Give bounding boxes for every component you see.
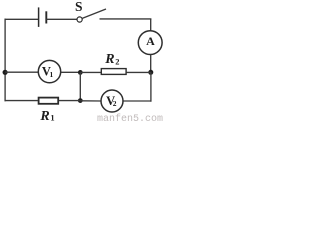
wire: R2 to D1 [126,71,150,73]
svg-text:S: S [75,0,83,14]
wire: right rail down to ammeter [150,19,152,31]
wire: bottom-left (left rail to R1) [5,100,38,102]
battery cell (long plate, positive) [38,7,40,27]
wire: bottom-right corner to V2 [123,100,151,102]
wire: D2 to resistor R2 [80,71,101,73]
wire: ammeter down to node D1 [150,54,152,72]
resistor R1 box [39,98,59,104]
ammeter A [138,31,162,55]
switch S pivot circle [77,17,82,22]
wire: R1 to D4 [59,100,80,102]
node D4 (bottom wire / branch junction) [78,98,83,103]
node D2 (V1 row / vertical branch junction) [78,70,83,75]
wire: right rail D1 down to bottom-right corner [150,72,152,101]
voltmeter V2 [101,90,123,112]
node D3 (left rail / V1 row junction) [3,70,8,75]
svg-text:R: R [39,109,49,123]
wire: switch to top-right corner [100,18,152,20]
svg-text:1: 1 [50,113,54,123]
svg-text:2: 2 [115,56,119,66]
voltmeter V1 [38,60,60,82]
node D1 (right rail / R2 row junction) [148,70,153,75]
svg-text:manfen5.com: manfen5.com [97,113,163,123]
wire: top-left horizontal (battery to left rail) [5,18,39,20]
switch S blade [82,9,106,18]
wire: battery to switch pivot [46,18,77,20]
wire: vertical branch D2 to D4 [79,72,81,100]
wire: D4 to V2 [80,100,101,102]
wire: V1 to node D2 [61,71,81,73]
wire: D3 to voltmeter V1 [5,71,38,73]
svg-text:2: 2 [113,99,117,108]
svg-text:A: A [146,34,155,48]
resistor R2 box [101,69,126,75]
battery cell (short plate, negative) [45,11,47,23]
left rail [4,19,6,102]
svg-text:1: 1 [50,70,54,79]
svg-text:R: R [104,52,114,67]
